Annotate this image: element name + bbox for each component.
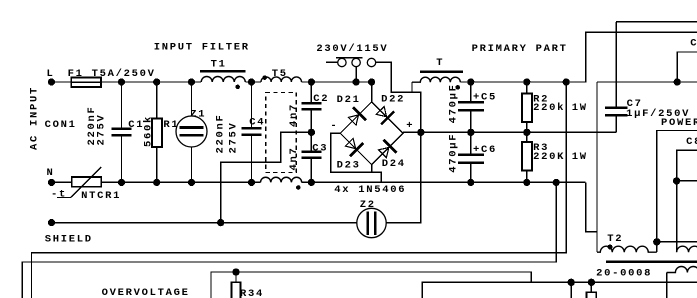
surge arrester Z2 xyxy=(357,208,386,237)
svg-text:Z1: Z1 xyxy=(190,108,206,120)
capacitor C2 xyxy=(301,82,321,132)
node plus Z2 branch xyxy=(417,129,424,136)
wire R34 net xyxy=(211,272,531,298)
node R1 bottom xyxy=(153,179,160,186)
arrester Z1 xyxy=(176,82,207,182)
node bottom branch 2 xyxy=(588,279,595,286)
node shield midpoint branch xyxy=(217,219,224,226)
svg-text:PRIMARY PART: PRIMARY PART xyxy=(472,43,568,55)
svg-text:C8: C8 xyxy=(690,38,697,50)
diode D24 xyxy=(379,140,397,158)
choke T5 lower winding xyxy=(261,177,302,190)
wire T2 secondary left pin xyxy=(666,273,668,298)
wire bridge minus loop xyxy=(331,133,381,182)
node bridge AC1 xyxy=(368,78,375,85)
svg-text:4x 1N5406: 4x 1N5406 xyxy=(334,184,406,196)
node R3 bottom xyxy=(523,179,530,186)
svg-text:560k: 560k xyxy=(143,115,155,147)
svg-text:20-0008: 20-0008 xyxy=(596,268,652,280)
wire plus mid rail xyxy=(403,131,616,133)
node C5 C6 midpoint xyxy=(467,129,474,136)
node C5 top xyxy=(467,78,474,85)
node R2 R3 midpoint xyxy=(523,129,530,136)
wire bus2 xyxy=(22,182,556,298)
transformer T2 core xyxy=(606,260,697,263)
jumper switch 230V/115V xyxy=(326,58,376,82)
capacitor C4 xyxy=(242,82,262,182)
svg-text:SHIELD: SHIELD xyxy=(45,234,93,246)
svg-text:T1: T1 xyxy=(211,59,227,71)
svg-text:470µF: 470µF xyxy=(448,133,460,173)
svg-text:AC INPUT: AC INPUT xyxy=(29,86,41,150)
diode D22 xyxy=(376,107,394,125)
svg-text:OVERVOLTAGE: OVERVOLTAGE xyxy=(102,287,190,298)
svg-text:Z2: Z2 xyxy=(360,199,376,211)
svg-text:275V: 275V xyxy=(227,121,239,153)
svg-text:-t: -t xyxy=(51,188,67,200)
svg-text:CON1: CON1 xyxy=(45,119,77,131)
capacitor C3 xyxy=(301,132,321,182)
node T2 right pin branch xyxy=(653,238,660,245)
inductor T1 xyxy=(200,71,246,89)
resistor R2 xyxy=(522,82,532,132)
wire from T2 aux node xyxy=(677,180,697,182)
wire N rail NTCR1 to T5 xyxy=(101,181,260,183)
node C1 bottom xyxy=(118,179,125,186)
node C6 bottom xyxy=(467,179,474,186)
wire midpoint to shield xyxy=(221,132,312,222)
svg-text:L: L xyxy=(47,68,55,80)
node C1 top xyxy=(118,78,125,85)
wire Z2 to plus drop xyxy=(386,132,421,222)
resistor R34 xyxy=(232,272,241,298)
capacitor C7 xyxy=(605,22,697,133)
diode D23 xyxy=(345,138,363,156)
wire shield line xyxy=(52,222,357,224)
svg-text:+C5: +C5 xyxy=(473,92,497,104)
node R34 top xyxy=(232,268,239,275)
wire top rail fuse to T1 xyxy=(101,81,201,83)
svg-text:230V/115V: 230V/115V xyxy=(316,43,388,55)
node L terminal xyxy=(48,78,55,85)
svg-text:C4: C4 xyxy=(249,117,265,129)
capacitor C5 xyxy=(458,82,484,132)
svg-text:1W: 1W xyxy=(572,151,588,163)
wire T left pin xyxy=(411,82,413,92)
svg-text:4n7: 4n7 xyxy=(288,146,300,170)
node bus1 drop top xyxy=(563,78,570,85)
resistor R1 xyxy=(152,82,162,182)
wire top rail right segment xyxy=(597,81,697,83)
node bottom branch 1 xyxy=(568,279,575,286)
svg-text:+: + xyxy=(406,120,414,132)
wire long vertical to T2 xyxy=(596,82,598,252)
node C4 bottom xyxy=(248,179,255,186)
capacitor C6 xyxy=(458,132,484,182)
svg-text:1W: 1W xyxy=(572,102,588,114)
wire bottom distribution xyxy=(422,282,697,298)
wire bridge AC1 pin xyxy=(371,82,373,102)
svg-text:D23: D23 xyxy=(337,159,361,171)
capacitor C8 stub xyxy=(677,52,697,82)
fuse F1 xyxy=(71,78,101,87)
node C3 bottom xyxy=(308,179,315,186)
node Z1 bottom xyxy=(188,179,195,186)
diode D21 xyxy=(348,107,366,125)
T5 dashed outline xyxy=(266,93,296,173)
svg-text:470µF: 470µF xyxy=(448,83,460,123)
svg-text:D21: D21 xyxy=(337,94,361,106)
wire bus1 xyxy=(32,82,567,298)
node Z1 top xyxy=(188,78,195,85)
node C2 top xyxy=(308,78,315,85)
svg-text:+C6: +C6 xyxy=(473,144,497,156)
capacitor C1 xyxy=(112,82,132,182)
bridge rectifier diamond xyxy=(340,102,403,165)
svg-text:C8: C8 xyxy=(686,136,697,148)
svg-text:INPUT FILTER: INPUT FILTER xyxy=(154,41,250,53)
wire from T2 right pin node xyxy=(657,241,697,243)
choke T5 upper winding xyxy=(261,75,301,82)
svg-text:220nF: 220nF xyxy=(214,113,226,153)
svg-text:275V: 275V xyxy=(96,113,108,145)
svg-text:POWERTRA: POWERTRA xyxy=(661,117,697,129)
node N terminal xyxy=(48,179,55,186)
node T2 aux branch xyxy=(673,177,680,184)
svg-text:220K: 220K xyxy=(533,151,565,163)
svg-text:4n7: 4n7 xyxy=(288,103,300,127)
thermistor NTCR1 xyxy=(57,167,101,198)
node R2 top xyxy=(523,78,530,85)
svg-text:T5: T5 xyxy=(272,68,288,80)
svg-text:C3: C3 xyxy=(312,143,328,155)
node C8 bottom xyxy=(674,78,681,85)
svg-text:N: N xyxy=(47,167,55,179)
node R1 top xyxy=(153,78,160,85)
svg-text:C1: C1 xyxy=(128,119,144,131)
resistor R3 xyxy=(522,132,532,182)
wire switch pin3 zigzag to T and plus rail xyxy=(376,62,421,132)
resistor bottom right xyxy=(587,282,597,298)
wire T5 to bridge top xyxy=(302,81,372,83)
inductor T xyxy=(412,72,463,90)
wire L to fuse xyxy=(52,81,72,83)
svg-text:T2: T2 xyxy=(607,233,623,245)
node C4 top xyxy=(248,78,255,85)
svg-text:-: - xyxy=(330,120,338,132)
node switch drop xyxy=(353,78,360,85)
svg-text:D22: D22 xyxy=(381,94,405,106)
node C2 C3 midpoint xyxy=(308,129,315,136)
node bus2 drop xyxy=(553,179,560,186)
wire T2 primary right pin xyxy=(657,131,697,253)
node shield terminal xyxy=(48,219,55,226)
svg-text:220k: 220k xyxy=(533,102,565,114)
transformer T2 secondary winding xyxy=(667,267,697,273)
svg-text:C2: C2 xyxy=(313,93,329,105)
wire N rail T5 to end xyxy=(302,181,586,183)
wire T1 to T5 xyxy=(245,81,261,83)
wire top right rail xyxy=(460,32,697,82)
wire N to NTCR1 xyxy=(52,181,72,183)
wire T2 aux left pin xyxy=(677,150,697,252)
svg-text:T: T xyxy=(436,57,444,69)
svg-text:D24: D24 xyxy=(382,158,406,170)
transformer T2 primary winding xyxy=(597,244,657,252)
svg-text:NTCR1: NTCR1 xyxy=(81,190,121,202)
svg-text:R34: R34 xyxy=(240,288,264,298)
svg-text:F1 T5A/250V: F1 T5A/250V xyxy=(68,68,156,80)
wire bottom branch 1 xyxy=(570,282,572,298)
svg-text:R1: R1 xyxy=(163,119,179,131)
wire N rail end to T2 xyxy=(586,182,597,231)
transformer T2 aux winding xyxy=(677,246,697,252)
wire bridge AC2 pin xyxy=(371,165,373,173)
